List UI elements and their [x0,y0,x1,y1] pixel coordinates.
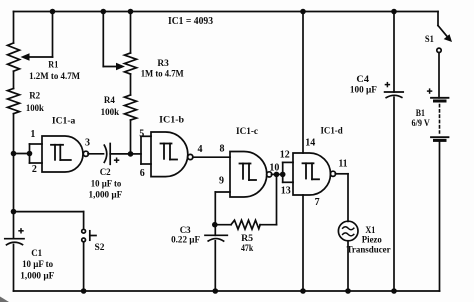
svg-text:R5: R5 [241,233,253,243]
svg-text:IC1 = 4093: IC1 = 4093 [168,16,213,27]
svg-text:13: 13 [281,185,291,196]
wire bottom rail [14,290,440,292]
svg-text:100k: 100k [26,103,45,113]
resistor R5 with node wiring [215,174,277,229]
wire left rail upper [13,12,15,44]
svg-text:Piezo: Piezo [362,235,382,245]
svg-text:C2: C2 [100,167,111,177]
wire R1 to R2 [13,71,15,88]
svg-text:4: 4 [198,144,203,155]
svg-text:47k: 47k [241,243,254,253]
svg-text:IC1-a: IC1-a [52,117,76,127]
node pin10 / IC1-d tie [280,172,286,178]
wire R3/R4 branch from top rail [130,12,132,54]
node left rail / IC1-a input [11,151,17,157]
node top rail / R1 wiper [50,9,56,15]
node bottom rail / S2 [81,288,87,294]
wire R3 to R4 [130,74,132,95]
piezo transducer X1 [338,221,358,241]
wire IC1-a out to C2 [88,153,104,155]
svg-text:10 µF to: 10 µF to [91,178,122,188]
resistor R3 [125,53,137,74]
svg-text:S1: S1 [425,34,434,44]
svg-text:2: 2 [32,164,37,175]
IC1-d schmitt symbol [303,163,320,179]
wire pin4 to pin8 [193,156,230,158]
plus C4 [385,82,390,87]
svg-text:C1: C1 [31,248,42,258]
svg-text:1,000 µF: 1,000 µF [20,270,54,280]
svg-text:R2: R2 [29,90,40,100]
capacitor C2 [104,144,130,165]
NAND gate IC1-a body [42,136,83,172]
svg-text:10: 10 [269,163,279,174]
svg-text:B1: B1 [416,108,426,118]
IC1-c output bubble [267,172,272,177]
svg-text:1M to 4.7M: 1M to 4.7M [141,69,184,79]
svg-text:R1: R1 [48,59,58,69]
svg-text:R3: R3 [157,58,169,68]
IC1-b input tie pins 5,6 [131,136,152,164]
wire pin10 [272,173,283,175]
node bottom rail / C3 [213,288,219,294]
node top rail / R3-R4 branch [128,9,134,15]
NAND gate IC1-d body [293,153,330,195]
scan artifact bottom-left corner [0,297,9,302]
wire pin 14 to top rail [302,12,304,154]
switch S1 [437,12,452,98]
node C2 / R4 / IC1-b input [128,151,134,157]
svg-text:7: 7 [315,197,320,208]
svg-text:0.22 µF: 0.22 µF [171,235,200,245]
wire C1/S2 branch horizontal [14,211,84,213]
svg-text:100k: 100k [101,107,120,117]
wire piezo to bottom rail [347,241,349,291]
node bottom rail / pin 7 [300,288,306,294]
node C3 / R5 / pin9 [212,222,218,228]
svg-text:Transducer: Transducer [347,244,391,254]
resistor R2 [8,89,20,114]
plus C1 [18,228,23,233]
svg-text:R4: R4 [104,95,115,105]
capacitor C1 [5,239,24,291]
wire left rail below R2 [13,114,15,238]
svg-text:IC1-d: IC1-d [320,127,343,137]
node pin10 / R5 riser [274,172,280,178]
wire pin 7 to bottom rail [302,195,304,291]
capacitor C3 [205,225,227,291]
node top rail / pin 14 [300,9,306,15]
NAND gate IC1-b body [151,132,188,177]
node left rail / C1-S2 branch [11,209,17,215]
NAND gate IC1-c body [230,152,267,198]
wire R4 to C2 node [130,120,132,154]
IC1-d output bubble [330,171,335,176]
resistor R1 [8,43,20,71]
plus C2 [114,158,119,163]
svg-text:8: 8 [220,144,225,155]
svg-text:6: 6 [140,168,145,179]
IC1-c schmitt symbol [240,164,257,181]
IC1-d input tie pins 12,13 [283,162,293,182]
svg-text:IC1-c: IC1-c [236,127,258,137]
svg-text:14: 14 [305,138,315,149]
node top rail / C4 [391,9,397,15]
svg-text:3: 3 [85,137,90,148]
svg-text:6/9 V: 6/9 V [412,118,431,128]
svg-text:1,000 µF: 1,000 µF [89,189,123,199]
node IC1-a input tie [27,151,33,157]
svg-text:11: 11 [339,158,348,169]
svg-text:1.2M to 4.7M: 1.2M to 4.7M [29,71,80,81]
svg-text:IC1-b: IC1-b [159,116,184,126]
svg-text:100 µF: 100 µF [350,85,377,95]
capacitor C4 [385,12,404,292]
R1 wiper arrow wire [21,12,53,61]
svg-text:C3: C3 [180,225,191,235]
IC1-a output bubble [83,151,88,156]
node top rail / R3 wiper [101,9,107,15]
svg-text:C4: C4 [356,74,369,84]
svg-text:9: 9 [219,176,224,187]
wire top rail [14,11,439,13]
svg-text:5: 5 [139,129,144,140]
IC1-a schmitt symbol [51,145,71,160]
svg-text:10 µF to: 10 µF to [22,259,53,269]
resistor R4 [125,95,137,120]
svg-text:1: 1 [30,129,35,140]
wire pin11 to piezo [335,174,348,222]
node bottom rail / piezo [345,288,351,294]
R3 wiper arrow wire [103,12,125,71]
svg-text:S2: S2 [95,242,105,252]
plus B1 [427,88,432,93]
battery B1 [431,98,449,291]
IC1-a input tie pins 1,2 [14,144,43,163]
IC1-c pin9 feedback wire [215,192,230,225]
IC1-b schmitt symbol [161,144,178,160]
svg-text:12: 12 [280,150,290,161]
node bottom rail / C4 [391,288,397,294]
IC1-b output bubble [188,154,193,159]
switch S2 [82,212,96,291]
